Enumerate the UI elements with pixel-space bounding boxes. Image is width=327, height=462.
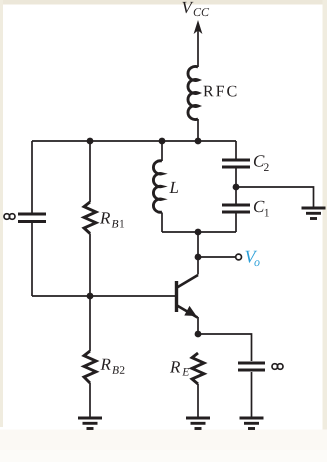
transistor Q1 emitter lead xyxy=(177,306,198,318)
label C1 xyxy=(254,201,265,213)
ground right of C mid node xyxy=(302,208,326,219)
label C2 xyxy=(254,155,265,167)
wire emitter node to bypass cap xyxy=(198,334,252,361)
transistor Q1 base bar xyxy=(175,281,178,312)
wire RFC to node xyxy=(197,119,199,141)
wire base horizontal xyxy=(32,295,176,297)
wire Vo tap xyxy=(198,256,236,258)
wire RB1 to RB2 xyxy=(89,234,91,352)
wire RB1 branch upper xyxy=(89,141,91,202)
wire node to collector xyxy=(197,232,199,275)
wire bypass cap to ground xyxy=(251,372,253,417)
ground below bypass cap xyxy=(240,418,264,429)
capacitor C1 xyxy=(222,205,250,212)
ground below RE xyxy=(186,418,210,429)
label RB2 xyxy=(100,359,110,370)
node dot C mid xyxy=(233,184,240,191)
wire C-mid to right ground xyxy=(236,187,314,207)
label infinity bypass xyxy=(272,364,283,370)
resistor RB2 xyxy=(84,351,96,383)
label infinity left xyxy=(4,214,15,220)
node dot top L xyxy=(159,138,166,145)
wire RB2 to ground xyxy=(89,383,91,417)
node dot collector Vo tap xyxy=(195,254,202,261)
inductor L xyxy=(153,161,162,212)
output terminal circle xyxy=(236,254,242,260)
wire RE to ground xyxy=(197,384,199,417)
transistor Q1 collector lead xyxy=(177,275,198,288)
wire L branch top xyxy=(161,141,163,161)
label RE xyxy=(170,361,180,372)
wire left vertical upper xyxy=(31,141,33,213)
ground below RB2 xyxy=(78,418,102,429)
label RFC xyxy=(204,86,237,97)
wire emitter down xyxy=(197,317,199,334)
resistor RE xyxy=(192,353,204,384)
VCC arrow xyxy=(194,20,203,34)
wire left vertical lower xyxy=(31,223,33,296)
capacitor infinity left xyxy=(18,214,46,222)
node dot top RB1 xyxy=(87,138,94,145)
transistor Q1 emitter arrowhead xyxy=(184,306,196,316)
label VCC xyxy=(182,2,193,13)
label L xyxy=(169,182,178,193)
label Vo xyxy=(245,251,257,263)
capacitor infinity bypass xyxy=(238,363,265,370)
resistor RB1 xyxy=(84,202,96,234)
node dot tank bottom xyxy=(195,229,202,236)
label RB1 xyxy=(100,212,110,223)
node dot top RFC xyxy=(195,138,202,145)
wire top horizontal xyxy=(32,140,236,142)
node dot emitter junction xyxy=(195,331,202,338)
wire C branch middle xyxy=(235,169,237,204)
node dot base junction xyxy=(87,293,94,300)
wire C branch bottom xyxy=(235,214,237,233)
capacitor C2 xyxy=(222,160,250,167)
inductor RFC xyxy=(188,67,198,120)
wire VCC stem xyxy=(197,26,199,67)
wire L branch bottom xyxy=(161,213,163,233)
wire tank bottom horizontal xyxy=(162,231,236,233)
wire C branch top xyxy=(235,141,237,159)
